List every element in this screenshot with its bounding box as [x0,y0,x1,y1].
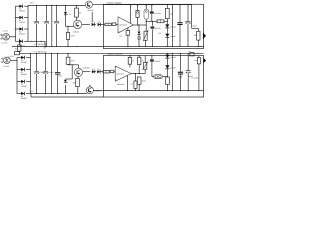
svg-text:1N4007: 1N4007 [21,85,27,88]
svg-text:Negative regulator: Negative regulator [107,53,123,56]
svg-text:+: + [43,20,44,23]
svg-text:+5 V (REG) OUT: +5 V (REG) OUT [34,43,49,46]
svg-text:+: + [184,20,185,23]
svg-text:+: + [53,20,54,23]
svg-text:−5 V (REG) OUT: −5 V (REG) OUT [34,50,49,53]
svg-text:+: + [42,70,43,73]
svg-text:+: + [33,20,34,23]
svg-text:1N4007: 1N4007 [19,21,25,24]
svg-text:1N4007: 1N4007 [170,67,176,70]
svg-text:LM741CN: LM741CN [119,24,127,27]
svg-text:1N4007: 1N4007 [19,10,25,13]
svg-text:MJ2955: MJ2955 [94,90,100,93]
svg-text:A 117V: A 117V [8,55,14,58]
svg-text:1N4007: 1N4007 [19,32,25,35]
svg-text:1N4007: 1N4007 [21,97,27,100]
svg-text:R2: R2 [73,81,75,84]
svg-text:LM741CN: LM741CN [116,72,124,75]
svg-text:MJ4502: MJ4502 [88,9,94,12]
svg-text:1N4007: 1N4007 [21,61,27,64]
svg-text:+: + [184,69,185,72]
svg-text:1N4007: 1N4007 [170,56,176,59]
svg-text:R1: R1 [79,11,81,14]
svg-text:Positive regulator: Positive regulator [107,1,122,4]
svg-text:1N4007: 1N4007 [170,26,176,29]
svg-text:1N4007: 1N4007 [21,73,27,76]
svg-text:A 117V: A 117V [2,30,8,33]
svg-text:+: + [33,70,34,73]
svg-text:1N4007: 1N4007 [170,35,176,38]
svg-text:4K22: 4K22 [142,79,146,82]
